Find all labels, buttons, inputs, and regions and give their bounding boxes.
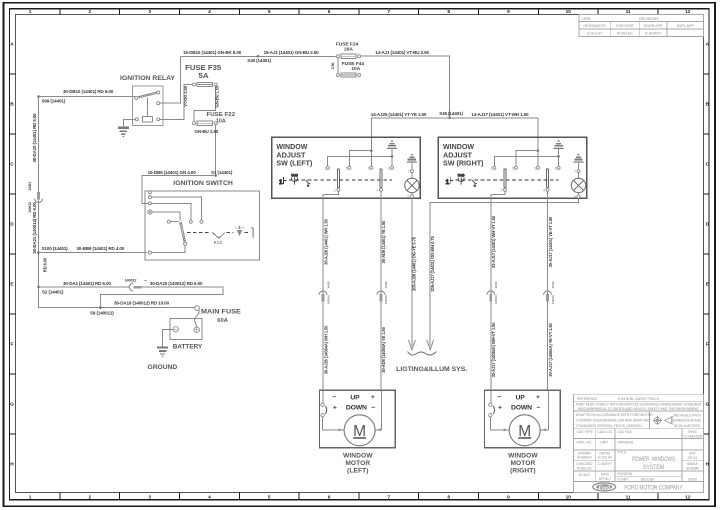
wire 15-DB9 to ignition switch <box>142 176 216 204</box>
wire 205-AJ26 from left lamp <box>411 198 413 340</box>
wire 30-DA21 left bus mid segment <box>38 199 40 252</box>
svg-text:U↕D: U↕D <box>291 173 298 177</box>
svg-text:STANDARDS VERSION_FECDS_VERSIO: STANDARDS VERSION_FECDS_VERSION <box>576 424 642 428</box>
window adjust switch U1 left box <box>272 137 420 198</box>
svg-text:S9 (140012): S9 (140012) <box>90 310 114 315</box>
ignition switch SW1 <box>145 191 259 260</box>
actuator symbol 1 U2 right <box>446 177 454 186</box>
actuator symbol 1 U1 left <box>279 177 287 186</box>
svg-text:DIMENSIONS ARE: DIMENSIONS ARE <box>673 419 702 423</box>
pin 6 U2 right <box>557 166 560 169</box>
wire into M1 left motor left <box>322 390 324 403</box>
svg-text:ADJUST: ADJUST <box>276 152 306 159</box>
wire pin1 to pin6 U2 right <box>494 156 558 168</box>
svg-text:30-AJ17 (14401) YE-VT 1.50: 30-AJ17 (14401) YE-VT 1.50 <box>548 216 553 267</box>
ground G1 relay <box>118 128 129 138</box>
svg-text:2.50: 2.50 <box>331 63 335 70</box>
ignition switch wire to blade <box>152 212 180 221</box>
pin 6 U1 left <box>391 166 394 169</box>
wire pin1 to pin6 U1 left <box>328 156 392 168</box>
svg-text:SPEC NO.: SPEC NO. <box>577 440 593 444</box>
wire main fuse to battery positive <box>194 310 199 327</box>
ignition switch pin 3 feed <box>148 202 151 205</box>
svg-text:LIGTING&ILLUM SYS.: LIGTING&ILLUM SYS. <box>396 366 467 373</box>
svg-text:RD 6.00: RD 6.00 <box>43 257 48 272</box>
svg-text:30-AD8 (14401) YE 1.50: 30-AD8 (14401) YE 1.50 <box>381 220 386 264</box>
svg-text:+: + <box>333 404 337 411</box>
svg-text:REFERENCE: REFERENCE <box>577 397 598 401</box>
svg-text:12: 12 <box>685 494 691 500</box>
motor connector pin b M2 right <box>489 414 492 417</box>
lamp ground riser U1 left <box>411 163 413 170</box>
notch contact U2 right <box>472 180 477 186</box>
svg-text:CAD FILE: CAD FILE <box>617 430 633 434</box>
ignition switch stop bracket <box>251 228 254 238</box>
connector arc M1 left <box>325 406 326 414</box>
svg-text:30-BB9 (14401) RD 4.00: 30-BB9 (14401) RD 4.00 <box>76 246 124 251</box>
svg-text:IGNITION SWITCH: IGNITION SWITCH <box>173 180 233 187</box>
pin 3 U2 right <box>536 166 539 169</box>
fuse F35 <box>193 82 218 86</box>
svg-text:F: F <box>11 342 14 348</box>
svg-text:ADJUST: ADJUST <box>443 152 473 159</box>
svg-text:14-AJ17 (14401) VT-WH 1.50: 14-AJ17 (14401) VT-WH 1.50 <box>471 112 529 117</box>
wire 30-DA20 loop to S9 <box>101 287 223 308</box>
svg-text:(RIGHT): (RIGHT) <box>510 468 536 475</box>
svg-text:SHT: SHT <box>689 451 696 455</box>
relay coil <box>143 116 153 122</box>
wire into M2 right motor right <box>548 390 550 430</box>
splice S99 <box>37 95 40 98</box>
svg-text:140012: 140012 <box>125 279 137 283</box>
svg-text:MOTOR: MOTOR <box>510 460 535 467</box>
wire to pin 5 U1 left <box>349 151 371 167</box>
svg-text:SHOWN: SHOWN <box>686 466 699 470</box>
junction at pin6 riser U2 right <box>557 155 560 158</box>
slider contact 2 U1 left <box>337 169 339 188</box>
svg-text:TITLE: TITLE <box>618 451 628 455</box>
svg-text:DATE: DATE <box>601 473 610 477</box>
svg-text:MAIN FUSE: MAIN FUSE <box>201 309 242 316</box>
wire F24 to F44 link <box>337 58 339 74</box>
svg-text:1: 1 <box>446 179 450 186</box>
ignition key symbol <box>235 226 245 237</box>
window adjust switch U2 right box <box>438 137 586 198</box>
motor M M1 left <box>344 415 375 446</box>
motor connector pin a M2 right <box>489 403 492 406</box>
wire 15-DB10 <box>181 55 259 57</box>
ground riser U2 right <box>558 149 560 156</box>
svg-text:SYSTEM: SYSTEM <box>643 464 664 471</box>
svg-text:14-AJ26 (14401) VT-YE 1.50: 14-AJ26 (14401) VT-YE 1.50 <box>371 112 427 117</box>
pin 7 U1 left <box>410 170 413 173</box>
splice S9 <box>99 306 102 309</box>
wire 30-DA1 <box>39 286 130 288</box>
svg-text:USED: USED <box>688 477 698 481</box>
wire 30-AD8 <box>380 191 382 390</box>
svg-text:14401: 14401 <box>551 281 555 289</box>
wire 14-AJ1 <box>361 56 450 118</box>
svg-text:W.HELES: W.HELES <box>577 466 592 470</box>
wire to pin 3 U2 right <box>537 151 539 167</box>
illumination ground symbol U2 right <box>573 153 584 162</box>
svg-text:S100 (14401): S100 (14401) <box>42 246 69 251</box>
splice S45 <box>448 117 451 120</box>
slider contact 4 U2 right <box>546 169 548 188</box>
svg-text:COMPANY ENGINEERING CAD AND DR: COMPANY ENGINEERING CAD AND DRAFTING <box>576 419 650 423</box>
notch contact U1 left <box>306 180 311 186</box>
svg-text:BATTERY: BATTERY <box>173 343 203 350</box>
ignition switch contact 1 <box>200 220 203 223</box>
pin 8 U2 right <box>577 195 580 198</box>
svg-text:CHECKER: CHECKER <box>616 24 634 28</box>
ground riser U1 left <box>391 149 393 156</box>
connector on 30-AJ17 <box>544 291 552 302</box>
svg-text:SW (RIGHT): SW (RIGHT) <box>443 161 484 168</box>
fuse F44 (spare) <box>337 73 361 77</box>
battery B1 <box>170 318 202 339</box>
svg-text:M: M <box>353 423 366 440</box>
relay coil left pin <box>135 118 138 121</box>
svg-text:FUSE F44: FUSE F44 <box>342 61 365 67</box>
svg-text:WINDOW: WINDOW <box>508 452 538 459</box>
svg-text:H476 BL CARGO TRUCK: H476 BL CARGO TRUCK <box>621 397 660 401</box>
svg-text:PLANT: PLANT <box>618 477 629 481</box>
svg-text:DRAFTED IN ACCORDANCE WITH FOR: DRAFTED IN ACCORDANCE WITH FORD MOTOR <box>576 413 653 417</box>
svg-text:20A: 20A <box>344 47 353 53</box>
lamp ground riser U2 right <box>578 163 580 170</box>
slider contact 4 U1 left <box>380 169 382 188</box>
svg-text:14084A: 14084A <box>494 294 498 304</box>
svg-text:FUSE F24: FUSE F24 <box>336 41 359 47</box>
motor connector pin b M1 left <box>321 414 324 417</box>
pin 4 U2 right <box>546 188 549 191</box>
svg-text:10: 10 <box>566 494 572 500</box>
wire pin7 to lamp U2 right <box>578 173 580 178</box>
svg-text:MATL APP: MATL APP <box>677 24 695 28</box>
pin 7 U2 right <box>577 170 580 173</box>
svg-text:30-AJ17 (14084A) YE-VT 1.50: 30-AJ17 (14084A) YE-VT 1.50 <box>548 322 553 376</box>
wire VT-OG to fuse F35 <box>160 84 193 119</box>
svg-text:SW (LEFT): SW (LEFT) <box>276 161 312 168</box>
wire 32-AJ17 <box>491 191 505 390</box>
svg-text:+: + <box>371 394 375 401</box>
battery negative terminal <box>173 327 178 332</box>
third angle projection symbol <box>653 416 673 425</box>
dashed segment <box>227 232 234 234</box>
ground G2 battery <box>157 348 168 358</box>
svg-text:14084A: 14084A <box>326 294 330 304</box>
svg-text:S40 (14401): S40 (14401) <box>247 58 271 63</box>
svg-text:14401: 14401 <box>28 182 32 191</box>
svg-text:ENGR APP: ENGR APP <box>644 24 663 28</box>
svg-text:1: 1 <box>279 179 283 186</box>
pin 5 U1 left <box>348 166 351 169</box>
pin 3 U1 left <box>370 166 373 169</box>
svg-text:PAINT MUST COMPLY WITH RESTRIC: PAINT MUST COMPLY WITH RESTRICTED SUBSTA… <box>576 403 702 407</box>
svg-text:30-DB10 (14401) RD 6.00: 30-DB10 (14401) RD 6.00 <box>63 89 114 94</box>
svg-text:−: − <box>498 394 502 401</box>
svg-text:CAD LOC.: CAD LOC. <box>598 430 614 434</box>
actuator rocker symbol U/D U1 left <box>291 173 298 184</box>
svg-text:14084A: 14084A <box>551 294 555 304</box>
wire 30-AJ26 <box>323 191 338 390</box>
relay armature link <box>147 98 149 117</box>
fuse F22 <box>193 121 218 125</box>
svg-text:POWER_WINDOWS: POWER_WINDOWS <box>632 456 675 463</box>
splice S40 <box>257 55 260 58</box>
Ford logo <box>593 483 616 491</box>
wire into M1 left motor right <box>381 390 383 430</box>
svg-text:CAD TYPE: CAD TYPE <box>577 430 594 434</box>
svg-text:HUSSEIN: HUSSEIN <box>577 456 592 460</box>
wire 14-AJ17 <box>450 118 538 151</box>
inline connector 140012 on 30-DA1 wire <box>129 283 141 291</box>
inline connector 14401/140012 on left bus <box>35 192 43 203</box>
svg-text:14401: 14401 <box>494 281 498 289</box>
pin 8 U1 left <box>410 195 413 198</box>
relay switch blade <box>135 91 160 100</box>
svg-text:S99 (14401): S99 (14401) <box>42 99 66 104</box>
wire 14-AJ26 <box>371 118 449 151</box>
svg-text:30-AJ26 (14401) WH 1.50: 30-AJ26 (14401) WH 1.50 <box>323 218 328 264</box>
svg-text:G: G <box>706 402 710 408</box>
actuator dashed line U2 right <box>455 179 558 181</box>
ignition switch pin 4 <box>148 210 152 214</box>
svg-text:SCALE: SCALE <box>579 473 591 477</box>
svg-text:−: − <box>537 404 541 411</box>
brace under illumination wires <box>408 352 437 356</box>
pin 4 U1 left <box>379 188 382 191</box>
svg-text:14-AJ1 (14401) VT-BU 2.50: 14-AJ1 (14401) VT-BU 2.50 <box>375 50 429 55</box>
ignition switch contact 3 <box>167 220 170 223</box>
svg-text:U↕D: U↕D <box>458 173 465 177</box>
svg-text:15-DB10 (14401) GN-BK 8.00: 15-DB10 (14401) GN-BK 8.00 <box>183 50 242 55</box>
fuse F24 <box>337 54 361 58</box>
svg-text:WINDOW: WINDOW <box>343 452 373 459</box>
pin 5 U2 right <box>515 166 518 169</box>
feed junction U1 left <box>370 149 373 152</box>
wire relay to ground <box>123 119 135 127</box>
connector arc M2 right <box>493 406 494 414</box>
connector on 30-AJ26 <box>319 291 327 302</box>
revision table <box>579 15 704 37</box>
svg-text:30-AD8 (14084A) YE 1.50: 30-AD8 (14084A) YE 1.50 <box>381 326 386 372</box>
svg-text:140012: 140012 <box>28 202 32 213</box>
title block <box>573 394 703 492</box>
pin 2 U2 right <box>504 188 507 191</box>
ignition switch wire to contact 1 <box>151 197 201 220</box>
svg-text:−: − <box>371 404 375 411</box>
svg-text:OF 31: OF 31 <box>688 456 697 460</box>
wire to motor M1 left <box>323 417 344 430</box>
ignition switch pin top <box>148 191 151 194</box>
wire 30-DA19 to main fuse <box>39 287 195 308</box>
wire into M2 right motor left <box>490 390 492 403</box>
svg-text:F: F <box>706 342 709 348</box>
wire relay feed riser <box>160 56 181 103</box>
motor M M2 right <box>509 415 540 446</box>
wire left bus lower segment <box>38 253 40 288</box>
ignition switch pin bottom <box>148 251 151 254</box>
svg-text:205-AJ26 (14401) OG-YE 0.75: 205-AJ26 (14401) OG-YE 0.75 <box>412 236 417 291</box>
svg-text:30-DA20 (140012) RD 6.00: 30-DA20 (140012) RD 6.00 <box>150 281 203 286</box>
wire to pin 3 U1 left <box>370 151 372 167</box>
arrow terminal 205-AJ17 <box>427 340 434 350</box>
svg-text:WINDOW: WINDOW <box>443 144 474 151</box>
junction at pin6 riser U1 left <box>391 155 394 158</box>
svg-text:14401: 14401 <box>326 281 330 289</box>
pin 1 U1 left <box>326 166 329 169</box>
svg-text:14084A: 14084A <box>384 294 388 304</box>
wire 30-AJ17 <box>547 191 549 390</box>
wire 30-DB10 to relay <box>39 96 136 98</box>
svg-text:W.HELES: W.HELES <box>617 32 634 36</box>
svg-text:GN-BU 2.50: GN-BU 2.50 <box>194 129 218 134</box>
illumination lamp U2 right <box>571 178 585 192</box>
svg-text:10: 10 <box>566 9 572 15</box>
svg-text:+: + <box>498 404 502 411</box>
ignition switch V notch <box>212 233 225 239</box>
svg-text:DOWN: DOWN <box>511 405 532 412</box>
svg-text:15-AJ1 (14401) GN-BU 2.50: 15-AJ1 (14401) GN-BU 2.50 <box>264 50 320 55</box>
svg-text:DOWN: DOWN <box>346 405 367 412</box>
svg-text:60A: 60A <box>217 318 228 324</box>
svg-text:IN MILLIMETERS: IN MILLIMETERS <box>674 424 701 428</box>
arrow terminal 205-AJ26 <box>408 340 415 350</box>
svg-text:30-DA21 (140012) RD 6.00: 30-DA21 (140012) RD 6.00 <box>32 202 37 254</box>
main fuse 60A symbol <box>195 306 200 311</box>
ignition switch detent dashed line <box>187 232 211 234</box>
dashed segment 2 <box>245 232 250 234</box>
pin 2 U1 left <box>337 188 340 191</box>
svg-text:UP: UP <box>516 395 526 402</box>
ignition relay K1 <box>133 86 163 125</box>
svg-text:S2 (14401): S2 (14401) <box>42 289 64 294</box>
internal ground symbol U1 left <box>386 140 397 149</box>
svg-text:FORD MOTOR COMPANY: FORD MOTOR COMPANY <box>624 486 682 492</box>
svg-text:UP: UP <box>350 395 360 402</box>
svg-text:15-DB9 (14401) GN 4.00: 15-DB9 (14401) GN 4.00 <box>148 170 197 175</box>
svg-text:IGNITION RELAY: IGNITION RELAY <box>120 75 176 82</box>
wire to motor M2 right <box>490 417 509 430</box>
svg-text:+: + <box>536 394 540 401</box>
wire 15-AJ1 <box>258 55 337 57</box>
wire pin7 to lamp U1 left <box>411 173 413 178</box>
splice S100 <box>37 251 40 254</box>
feed junction U2 right <box>537 149 540 152</box>
svg-text:GN-BU 1.50: GN-BU 1.50 <box>214 85 219 107</box>
svg-text:14401: 14401 <box>384 281 388 289</box>
wire to pin 5 U2 right <box>516 151 538 167</box>
svg-text:FUSE F22: FUSE F22 <box>207 112 236 118</box>
svg-text:UNIT: UNIT <box>600 440 608 444</box>
svg-text:30-AJ26 (14084A) WH 1.50: 30-AJ26 (14084A) WH 1.50 <box>323 325 328 374</box>
relay output pin <box>157 102 160 105</box>
svg-text:S1 (14401): S1 (14401) <box>211 170 233 175</box>
svg-text:−: − <box>332 394 336 401</box>
connector on 32-AJ17 <box>487 291 495 302</box>
pin 1 U2 right <box>493 166 496 169</box>
motor connector pin a M1 left <box>321 403 324 406</box>
svg-text:REVISIONS: REVISIONS <box>639 17 659 21</box>
svg-text:VT-OG 1.50: VT-OG 1.50 <box>183 85 188 107</box>
svg-text:ORIGINATOR: ORIGINATOR <box>583 24 606 28</box>
ignition switch wire to contact 2 <box>151 203 190 220</box>
svg-text:H.GULAY: H.GULAY <box>598 456 613 460</box>
wire 30-BB9 to ignition switch <box>39 252 148 254</box>
svg-text:30-DA10 (14401) RD 6.00: 30-DA10 (14401) RD 6.00 <box>32 113 37 163</box>
wire battery to ground <box>163 329 174 347</box>
svg-text:TO MASTER: TO MASTER <box>683 435 703 439</box>
svg-text:10A: 10A <box>351 66 360 72</box>
internal ground symbol U2 right <box>553 140 564 149</box>
svg-text:S45 (14401): S45 (14401) <box>439 111 463 116</box>
svg-text:G: G <box>10 402 14 408</box>
svg-text:D.HOXEY: D.HOXEY <box>645 32 662 36</box>
svg-text:LTRS: LTRS <box>582 17 592 21</box>
svg-text:3RD ANGLE PROJ: 3RD ANGLE PROJ <box>673 413 702 417</box>
svg-text:DRAWING: DRAWING <box>618 440 634 444</box>
svg-text:M: M <box>518 423 531 440</box>
actuator dashed line U1 left <box>289 179 392 181</box>
svg-text:H.GULAY: H.GULAY <box>587 32 603 36</box>
slider contact 2 U2 right <box>504 169 506 188</box>
wire 205-AJ17 from right lamp <box>430 198 578 340</box>
svg-text:SYNC: SYNC <box>688 430 698 434</box>
svg-text:WSS-M99P9999-A1 TO SAFEGUARD H: WSS-M99P9999-A1 TO SAFEGUARD HEALTH, SAF… <box>578 407 699 411</box>
illumination lamp U1 left <box>405 178 419 192</box>
svg-text:(LEFT): (LEFT) <box>347 468 368 475</box>
actuator rocker symbol U/D U2 right <box>458 173 465 184</box>
svg-text:30-DA19 (140012) RD 10.00: 30-DA19 (140012) RD 10.00 <box>114 300 170 305</box>
ignition switch contact 2 <box>189 220 192 223</box>
ignition switch blade to bottom pin <box>152 245 186 252</box>
svg-text:DIVISION: DIVISION <box>618 472 633 476</box>
svg-text:D.AVEYT: D.AVEYT <box>598 462 612 466</box>
svg-text:WINDOW: WINDOW <box>276 144 307 151</box>
svg-text:6.1.2: 6.1.2 <box>214 239 223 244</box>
wire GN-BU 1.50 F35 to F22 <box>194 86 216 122</box>
svg-text:11: 11 <box>626 494 631 500</box>
svg-text:DELOUK: DELOUK <box>641 477 655 481</box>
splice S1 <box>214 174 217 177</box>
relay coil right pin <box>157 118 160 121</box>
svg-text:EFF&LT: EFF&LT <box>599 477 611 481</box>
ignition switch rotary blade <box>180 222 186 246</box>
svg-text:MOTOR: MOTOR <box>345 460 370 467</box>
svg-text:30-DA1 (14401) RD 6.00: 30-DA1 (14401) RD 6.00 <box>63 281 111 286</box>
svg-text:32-AJ17 (14084A) WH-VT 1.50: 32-AJ17 (14084A) WH-VT 1.50 <box>491 322 496 378</box>
battery positive terminal <box>194 327 199 332</box>
window motor M2 right box <box>485 390 561 447</box>
ignition switch contact 3 wire <box>170 221 178 223</box>
svg-text:Ford: Ford <box>598 485 610 491</box>
wire GN-BU 2.50 to S1 <box>215 125 217 176</box>
illumination ground symbol U1 left <box>406 153 417 162</box>
window motor M1 left box <box>319 390 395 447</box>
wire 30-DA10 left bus upper segment <box>38 97 40 192</box>
ignition switch pin 2 <box>148 196 151 199</box>
svg-text:5A: 5A <box>198 71 208 80</box>
connector on 30-AD8 <box>377 291 385 302</box>
splice S2 <box>37 286 40 289</box>
svg-text:32-AJ17 (14401) WH-VT 1.50: 32-AJ17 (14401) WH-VT 1.50 <box>491 215 496 268</box>
svg-text:205-AJ17 (14401) OG-WH 0.75: 205-AJ17 (14401) OG-WH 0.75 <box>430 236 435 292</box>
svg-text:GROUND: GROUND <box>148 364 178 371</box>
